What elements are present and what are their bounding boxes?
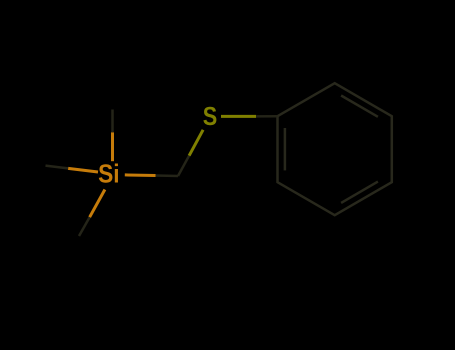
bond Si to methyl lower-left (carbon-colored half): [79, 217, 90, 236]
benzene ring C1-C6 (hexagon outline): [278, 83, 392, 215]
bond Si to methyl left (carbon-colored half): [46, 166, 69, 169]
bond S to CH2 (sulfur-colored half): [189, 130, 203, 156]
bond Si to CH2 (silicon-colored half): [125, 173, 156, 177]
bond Si to methyl up (silicon-colored half): [111, 132, 114, 161]
ring double bond C6=C1 (inner line, left): [284, 128, 287, 170]
svg-text:S: S: [203, 103, 218, 131]
bond S to ring C1 (sulfur-colored half): [221, 115, 256, 118]
bond Si to methyl left (silicon-colored half): [68, 168, 98, 172]
bond S to CH2 (carbon-colored half): [178, 156, 189, 176]
svg-text:Si: Si: [98, 159, 120, 189]
ring double bond C2=C3 (inner line, top-right): [341, 96, 378, 117]
ring double bond C4=C5 (inner line, bottom-right): [341, 182, 378, 203]
bond S to ring C1 (carbon-colored half): [256, 115, 277, 118]
bond Si to CH2 (carbon-colored half): [156, 174, 178, 177]
bond Si to methyl lower-left (silicon-colored half): [90, 190, 105, 218]
bond Si to methyl up (carbon-colored half): [111, 110, 114, 133]
